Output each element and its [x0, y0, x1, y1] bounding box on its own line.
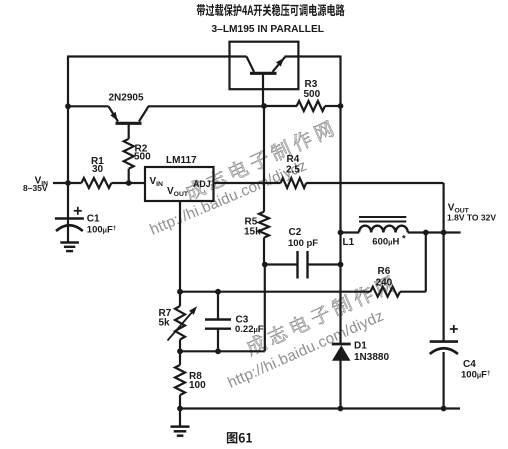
wire C2-node down vertical	[264, 265, 266, 352]
junction node L1 VOUT rail	[441, 230, 447, 236]
wire 2N2905 collector to node	[148, 105, 264, 107]
arrow R7 wiper	[168, 311, 194, 341]
svg-text:1N3880: 1N3880	[354, 352, 389, 363]
svg-text:R6: R6	[378, 266, 391, 277]
capacitor C2 left plate	[296, 251, 298, 279]
transistor Q1 emitter arrowhead	[110, 112, 117, 121]
wire R4 to right rail	[306, 182, 443, 184]
svg-text:30: 30	[92, 164, 104, 175]
inductor L1 core line 2	[359, 221, 406, 223]
svg-text:15k: 15k	[244, 227, 261, 238]
transistor Q1 base lead	[128, 125, 130, 139]
svg-text:C2: C2	[289, 227, 302, 238]
wire R7 to R8 node	[179, 340, 181, 366]
resistor R6 zigzag	[370, 287, 400, 297]
inductor L1 core line 1	[359, 216, 406, 218]
capacitor C4 arc plate	[430, 348, 458, 354]
svg-text:0.22μF: 0.22μF	[235, 324, 264, 335]
capacitor C1 arc plate	[56, 225, 83, 231]
junction node L1 left	[338, 230, 344, 236]
resistor R2 zigzag vertical	[124, 139, 134, 169]
wire top right corner vertical	[339, 56, 341, 107]
capacitor C4 plus sign	[450, 328, 458, 330]
svg-text:ADJ: ADJ	[193, 179, 211, 189]
capacitor C3 top plate	[205, 318, 231, 320]
svg-text:1.8V TO 32V: 1.8V TO 32V	[447, 213, 496, 223]
caption 图61	[227, 432, 252, 444]
wire ADJ lead horizontal	[214, 182, 281, 184]
capacitor C4 top plate	[430, 340, 458, 343]
box regulator U1 LM117	[145, 167, 214, 201]
svg-text:240: 240	[376, 278, 393, 289]
capacitor C1 lead	[67, 219, 69, 242]
ground G2 stub	[179, 409, 181, 427]
wire 2N2905 emitter lead	[68, 105, 109, 107]
junction node R7 R8	[177, 348, 183, 354]
wire R3 right lead	[325, 105, 341, 107]
transistor Q1 base bar	[116, 122, 142, 125]
svg-text:R4: R4	[287, 154, 300, 165]
diode D1 triangle	[332, 345, 351, 361]
wire center rail x340 middle	[339, 233, 341, 346]
junction node VOUT R7	[177, 289, 183, 295]
junction node base R3	[261, 103, 267, 109]
wire VIN input lead	[53, 182, 81, 184]
junction node R3 right	[338, 103, 344, 109]
wire feedback line left	[180, 291, 370, 293]
svg-text:500: 500	[304, 89, 321, 100]
junction node L1 R6	[423, 230, 429, 236]
junction node input top	[65, 103, 71, 109]
junction node R1 R2	[126, 180, 132, 186]
ground G2 bar3	[177, 434, 184, 437]
svg-text:100μF†: 100μF†	[87, 225, 117, 236]
wire LM117 VOUT lead down	[179, 201, 181, 306]
wire C2 right lead	[309, 263, 341, 265]
resistor R7 zigzag vertical	[175, 306, 185, 340]
box 3-LM195	[230, 42, 299, 89]
wire right rail vertical upper	[443, 183, 445, 341]
junction node ground D1	[338, 406, 344, 412]
wire L1 left lead	[341, 231, 360, 233]
svg-text:C1: C1	[87, 214, 100, 225]
svg-text:500: 500	[134, 152, 151, 163]
wire R6 right vertical	[425, 233, 427, 292]
transistor U2 base lead	[262, 75, 264, 107]
resistor R1 zigzag	[81, 178, 111, 188]
wire C3 top lead	[217, 292, 219, 319]
transistor U2 LM195 collector diagonal	[247, 57, 255, 72]
ground G2 bar1	[171, 425, 190, 428]
junction node ground C4	[441, 406, 447, 412]
svg-text:LM117: LM117	[166, 155, 197, 166]
junction node ground R8	[177, 406, 183, 412]
transistor U2 base bar	[250, 72, 277, 75]
transistor Q1 2N2905 emitter diagonal	[109, 106, 119, 121]
resistor R5 zigzag vertical	[259, 212, 269, 238]
svg-text:C4: C4	[463, 359, 476, 370]
wire left rail vertical	[67, 56, 69, 220]
transistor U2 emitter arrowhead	[276, 58, 284, 67]
watermark 1 chinese text	[183, 119, 335, 201]
svg-text:D1: D1	[354, 341, 367, 352]
junction node R5 C2	[262, 262, 268, 268]
capacitor C1 plus sign	[74, 210, 82, 212]
junction node VIN C1	[65, 180, 71, 186]
wire top right horizontal	[285, 55, 341, 57]
svg-text:100: 100	[189, 380, 206, 391]
wire R5 to C2 node	[263, 238, 265, 265]
title text	[197, 4, 345, 16]
svg-text:2N2905: 2N2905	[109, 93, 144, 104]
ground G1 bar1	[60, 241, 79, 243]
transistor Q1 collector diagonal	[139, 106, 149, 121]
wire R2 bottom lead	[128, 169, 130, 183]
wire R1 to R2 junction to LM117	[111, 182, 145, 184]
svg-text:100μF†: 100μF†	[461, 370, 491, 381]
wire center rail x340 upper	[339, 106, 341, 233]
wire bottom ground rail	[180, 407, 460, 409]
junction node C3 top	[215, 289, 221, 295]
transistor U2 emitter diagonal	[273, 57, 286, 72]
wire right rail vertical lower	[443, 352, 445, 409]
wire C3 bottom lead	[217, 330, 219, 352]
wire R8 to ground rail	[179, 395, 181, 409]
wire top left rail horizontal	[68, 55, 247, 57]
inductor L1 coil	[359, 226, 408, 233]
svg-text:8–35V: 8–35V	[23, 183, 48, 193]
svg-text:2.5: 2.5	[286, 165, 300, 176]
diode D1 cathode bar	[332, 343, 351, 346]
capacitor C3 bottom plate	[205, 328, 231, 330]
resistor R3 zigzag	[297, 101, 325, 111]
wire sense line y351	[180, 350, 265, 352]
wire base node vertical upper	[263, 106, 265, 212]
wire R3 left lead	[264, 105, 297, 107]
ground G1 bar2	[64, 246, 75, 248]
svg-text:100 pF: 100 pF	[288, 238, 318, 249]
wire L1 right lead	[408, 231, 461, 233]
svg-text:L1: L1	[343, 237, 355, 248]
capacitor C1 top plate	[55, 217, 84, 220]
watermark 2 chinese text	[244, 274, 396, 356]
resistor R8 zigzag vertical	[175, 365, 185, 395]
wire C2 left lead	[264, 263, 297, 265]
ground G2 bar2	[174, 430, 187, 433]
junction node C2 right	[338, 262, 344, 268]
resistor R4 zigzag	[281, 178, 307, 188]
wire center rail x340 lower	[339, 360, 341, 409]
svg-text:5k: 5k	[159, 318, 171, 329]
ground G1 bar3	[66, 250, 73, 252]
capacitor C2 right plate	[306, 251, 308, 279]
wire R6 right lead	[400, 291, 426, 293]
junction node C3 bottom	[215, 348, 221, 354]
svg-text:3–LM195 IN PARALLEL: 3–LM195 IN PARALLEL	[212, 24, 324, 35]
